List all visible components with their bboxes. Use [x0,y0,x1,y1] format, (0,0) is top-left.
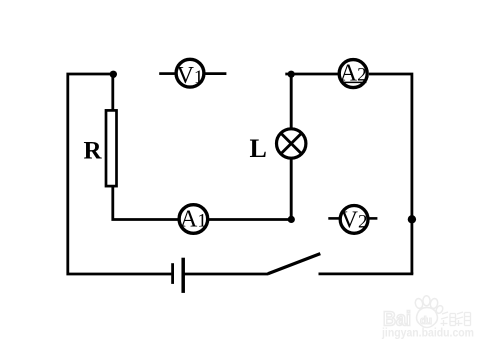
voltmeter V2 left stub wire [328,217,339,220]
switch S blade (open) [268,254,320,274]
wire A1 to lamp-bottom node [209,218,291,221]
node junction dot lamp bottom [288,216,295,223]
node junction dot lamp top [288,71,295,78]
watermark Baidu Jingyan logo [381,296,474,340]
battery cell positive plate (long) [181,258,185,293]
wire switch contact to bottom-right corner [319,272,414,275]
svg-text:V1: V1 [177,63,204,89]
svg-text:L: L [250,134,267,163]
voltmeter V1 [176,59,204,89]
voltmeter V1 left stub wire [159,72,174,75]
ammeter A1 [179,205,208,234]
node junction dot top-left [110,71,117,78]
svg-text:R: R [84,138,103,165]
wire lamp branch vertical [290,74,293,219]
svg-text:jingyan.baidu.com: jingyan.baidu.com [381,326,474,340]
wire from top-left node down to resistor [111,74,114,111]
wire A2 to top-right corner and right side down [369,74,412,274]
voltmeter V1 right stub wire [206,72,227,75]
ammeter A2 [339,60,367,88]
voltmeter V2 [340,206,368,234]
wire resistor bottom to ammeter A1 [113,185,178,220]
battery cell negative plate (short) [171,263,174,284]
node junction dot right side [408,215,416,223]
svg-text:V2: V2 [341,208,368,234]
voltmeter V2 right stub wire [369,217,377,220]
lamp L [277,129,306,158]
wire lamp-top node to ammeter A2 [285,73,338,76]
wire left loop: top-left, left side, bottom-left to battery [68,74,172,274]
resistor R body [106,110,117,186]
svg-text:A1: A1 [180,207,207,233]
wire battery to switch [183,273,268,276]
